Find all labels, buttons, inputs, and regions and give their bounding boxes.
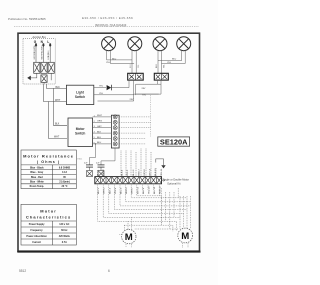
svg-text:( Ohms ): ( Ohms ): [37, 160, 60, 164]
svg-text:ORG: ORG: [97, 121, 102, 123]
svg-text:Publication No. 5995512805: Publication No. 5995512805: [8, 17, 46, 21]
wire strip bottom drop to C2: [101, 148, 115, 165]
terminal block 3 cells: [34, 62, 55, 73]
lamp B1 lead 2: [161, 50, 163, 73]
svg-text:14.3: 14.3: [62, 171, 67, 174]
page frame bottom thick border: [17, 251, 200, 253]
svg-text:Power Absorbtion: Power Absorbtion: [26, 235, 47, 238]
pin numbers: [94, 115, 96, 144]
svg-text:YEL-4: YEL-4: [115, 187, 117, 194]
svg-text:SE120A: SE120A: [160, 138, 188, 147]
strip labels above: [98, 168, 163, 176]
svg-text:N: N: [41, 40, 44, 44]
svg-text:BLU-5: BLU-5: [121, 187, 123, 194]
terminal below N: [41, 75, 47, 83]
dashed staircase wiring to motors: [98, 184, 191, 248]
svg-text:Blue - White: Blue - White: [30, 181, 44, 184]
svg-text:BLK: BLK: [56, 87, 61, 89]
svg-text:GRY-2: GRY-2: [103, 169, 105, 176]
chassis ground wire: [31, 73, 37, 78]
wire WHT feed to light switch: [44, 84, 67, 102]
svg-text:Optional Kit: Optional Kit: [167, 182, 181, 186]
connector B drop right wire: [98, 80, 162, 101]
lamp A1: [102, 37, 116, 51]
svg-text:Motor Resistance: Motor Resistance: [23, 154, 74, 159]
svg-text:35: 35: [63, 176, 66, 179]
capacitor C2: [98, 165, 105, 167]
junction box (dashed enclosure): [23, 39, 55, 84]
svg-text:5512: 5512: [19, 269, 26, 273]
svg-text:BLU: BLU: [156, 64, 158, 68]
lamp A2 lead 1: [131, 50, 133, 73]
vertical connector strip: [111, 115, 119, 148]
arrow under N: [42, 43, 44, 45]
lamp A1 lead 1: [107, 50, 132, 60]
motor right: [178, 228, 193, 243]
motor switch box: [68, 118, 93, 147]
svg-text:420 Watts: 420 Watts: [59, 235, 71, 238]
chassis arrow down: [156, 159, 164, 165]
svg-text:Current: Current: [32, 241, 41, 244]
svg-text:21.6(min): 21.6(min): [59, 181, 70, 184]
arrow under G: [35, 43, 37, 45]
motor switch pin wires to strip: [93, 117, 112, 144]
svg-text:BLK: BLK: [97, 131, 102, 133]
motor characteristics table: [21, 204, 76, 245]
lamp B1 lead 1: [157, 50, 159, 73]
wire G drop: [35, 47, 37, 62]
svg-text:Single or Double Motor: Single or Double Motor: [162, 178, 189, 182]
wire N drop: [42, 47, 44, 62]
svg-text:YEL: YEL: [99, 86, 104, 88]
svg-text:M: M: [181, 231, 189, 242]
svg-text:L: L: [47, 40, 49, 44]
svg-text:3.7A: 3.7A: [62, 241, 67, 244]
svg-text:G: G: [34, 40, 37, 44]
lamp B2 lead 2: [162, 50, 186, 63]
svg-text:WHT-9: WHT-9: [150, 168, 152, 176]
motor resistance table: [21, 150, 76, 189]
dotted perforation rule: [14, 26, 199, 28]
cap terminal 2: [98, 171, 104, 177]
lamp B2: [177, 37, 191, 51]
wire L drop: [49, 47, 51, 62]
svg-text:BLK: BLK: [97, 137, 102, 139]
svg-text:RED-6: RED-6: [126, 187, 128, 194]
lamp A1 lead 2: [111, 50, 135, 63]
svg-text:9.8 OHMS: 9.8 OHMS: [59, 166, 71, 169]
motor resistance table text: [23, 154, 74, 189]
wire labels WHT ORG GRY BLK BLU: [97, 115, 103, 144]
cap terminal 1: [87, 171, 93, 177]
svg-text:BLK-4: BLK-4: [122, 169, 124, 176]
svg-text:Blue - Red: Blue - Red: [31, 176, 43, 179]
wire from lower terminal down: [43, 82, 45, 84]
wire BLK feed to light switch: [47, 84, 67, 88]
svg-text:GRY-7: GRY-7: [132, 187, 134, 194]
strip right arrow stub: [162, 179, 166, 182]
svg-text:YEL-10: YEL-10: [149, 186, 151, 194]
dashed feeds above strip: [121, 149, 156, 177]
svg-text:BLK-9: BLK-9: [143, 187, 145, 194]
lamp A2 lead 2: [135, 50, 137, 73]
svg-text:6: 6: [108, 269, 110, 273]
svg-text:Characteristics: Characteristics: [26, 215, 71, 220]
lamp B2 lead 1: [158, 50, 182, 60]
light switch right pin 2 wire: [94, 80, 134, 95]
svg-text:BLK: BLK: [55, 123, 60, 125]
svg-text:WHT: WHT: [97, 115, 103, 117]
svg-text:E30-65K / E36-65K / E45-65K: E30-65K / E36-65K / E45-65K: [82, 16, 133, 20]
svg-text:GROUND(GRN): GROUND(GRN): [34, 45, 36, 59]
svg-text:BLU: BLU: [112, 58, 117, 60]
svg-text:28V: 28V: [130, 99, 134, 101]
svg-text:BLU-1: BLU-1: [98, 169, 100, 176]
wire L down to BLK feed: [50, 73, 52, 80]
connector block A: [128, 73, 144, 80]
strip labels below: [98, 185, 162, 194]
capacitor C1 leads: [89, 167, 91, 170]
strip terminal X cells: [113, 115, 117, 146]
connector block B: [154, 73, 168, 80]
svg-text:RED-7: RED-7: [138, 168, 140, 175]
svg-text:Motor: Motor: [40, 208, 57, 213]
horizontal strip X cells: [95, 177, 161, 183]
svg-text:BLK-3: BLK-3: [109, 187, 111, 194]
svg-text:EM-1: EM-1: [78, 159, 84, 161]
svg-text:BLU: BLU: [97, 142, 102, 144]
svg-text:4uF: 4uF: [96, 163, 100, 165]
svg-text:WIRING DIAGRAM: WIRING DIAGRAM: [95, 24, 127, 28]
svg-text:Junction Box: Junction Box: [32, 36, 46, 39]
chassis ground arrow: [27, 76, 31, 81]
svg-text:M: M: [125, 232, 133, 243]
svg-text:WHT-8: WHT-8: [137, 186, 139, 194]
svg-text:BLU-6: BLU-6: [133, 169, 135, 176]
svg-text:BLU-11: BLU-11: [154, 186, 156, 194]
svg-text:GRY: GRY: [97, 126, 102, 128]
svg-text:120 v AC: 120 v AC: [59, 223, 69, 226]
svg-text:28V: 28V: [142, 88, 146, 90]
SE120A box: [158, 137, 190, 146]
wire BLK branch to motor switch: [53, 88, 67, 125]
wire WHT branch to motor switch: [49, 102, 67, 139]
BLU junction wire down to capacitors: [90, 144, 96, 165]
svg-text:Blue - Gray: Blue - Gray: [30, 171, 43, 174]
svg-text:YEL: YEL: [138, 64, 140, 68]
svg-text:YEL: YEL: [164, 64, 166, 68]
svg-text:BLU: BLU: [172, 59, 177, 61]
svg-text:Blue - Black: Blue - Black: [30, 166, 44, 169]
junction dot: [95, 143, 96, 144]
svg-text:BLU: BLU: [130, 64, 132, 68]
svg-text:WHT: WHT: [54, 137, 60, 139]
svg-text:4uF: 4uF: [84, 163, 88, 165]
connector B drop left wire: [136, 80, 158, 95]
svg-text:YEL: YEL: [142, 95, 147, 97]
svg-text:23 °C: 23 °C: [61, 185, 67, 188]
dashed harness down to SE120A: [150, 95, 152, 137]
light switch box: [66, 85, 93, 104]
horizontal connector strip: [95, 177, 162, 184]
lamp A2: [128, 37, 142, 51]
arrow under L: [49, 43, 51, 45]
lamp B1: [153, 37, 167, 51]
svg-text:Frequency: Frequency: [31, 229, 44, 232]
svg-text:Power Supply: Power Supply: [29, 223, 45, 226]
svg-text:YEL-5: YEL-5: [127, 169, 129, 176]
capacitor C2 leads: [100, 167, 102, 170]
wire mesh right of loop: [136, 84, 161, 94]
svg-text:BLU-1: BLU-1: [98, 187, 100, 194]
svg-text:Switch: Switch: [75, 131, 85, 135]
light switch right pin 1 wire: [94, 87, 106, 89]
motor characteristics table text: [26, 208, 71, 244]
svg-text:Room Temp.: Room Temp.: [30, 185, 45, 188]
page frame border: [18, 33, 200, 251]
svg-text:WHT: WHT: [55, 100, 61, 102]
svg-text:NEUTRAL(WHT): NEUTRAL(WHT): [40, 45, 43, 60]
capacitor C1: [86, 165, 93, 167]
wire from diode to connector A left: [112, 80, 129, 88]
svg-text:GRY-8: GRY-8: [144, 169, 146, 176]
svg-text:GRY-2: GRY-2: [104, 187, 106, 194]
svg-text:Switch: Switch: [75, 95, 85, 99]
dashed leads out of strip: [119, 117, 150, 144]
svg-text:60 Hz: 60 Hz: [61, 229, 68, 232]
diode indicator: [107, 85, 112, 90]
motor left: [122, 229, 136, 243]
svg-text:LINE(BLK): LINE(BLK): [48, 50, 50, 59]
svg-text:YEL: YEL: [106, 62, 111, 64]
svg-text:YEL-11: YEL-11: [161, 168, 163, 176]
